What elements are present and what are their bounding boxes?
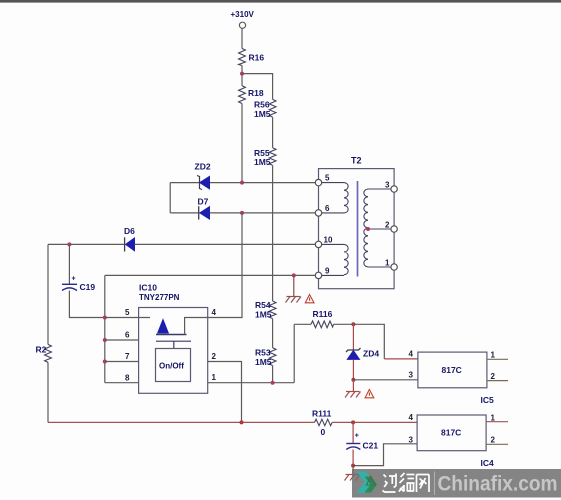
zener ZD4 [346, 324, 379, 380]
wire D7 node to T2 pin6 [242, 212, 315, 214]
wire IC10 pin1 line to R53/R116 branch [208, 382, 295, 384]
svg-text:3: 3 [409, 371, 414, 380]
warning triangle 3 (over banner) [366, 476, 375, 485]
svg-text:R2: R2 [36, 345, 47, 355]
svg-text:Chinafix.com: Chinafix.com [438, 473, 558, 496]
resistor R55 1M5 [254, 148, 276, 167]
svg-text:C19: C19 [80, 282, 96, 292]
node C21 top junction [351, 420, 355, 424]
svg-text:6: 6 [325, 204, 330, 213]
svg-text:On/Off: On/Off [159, 362, 184, 371]
wire ZD2 node to T2 pin5 [242, 182, 315, 184]
block On/Off inside IC10 [156, 349, 191, 382]
svg-text:R116: R116 [313, 309, 333, 319]
svg-text:1M5: 1M5 [255, 309, 272, 319]
wire IC5 pin1 right [487, 358, 508, 360]
svg-text:1M5: 1M5 [255, 357, 272, 367]
wire R55 down to R54 (crosses pin5/pin6/pin10/pin9 lines) [272, 165, 274, 301]
wire IC5 pin3 line [353, 379, 418, 381]
top border bar [0, 0, 561, 3]
op-amp IC10 outline [139, 283, 208, 394]
svg-text:817C: 817C [442, 365, 462, 375]
pin 1 T2 [385, 259, 397, 271]
winding secondary 3-2-1 [364, 189, 391, 267]
resistor R116 [294, 309, 353, 328]
wire IC10 pin2 branch down to bottom line [208, 362, 242, 423]
svg-text:IC4: IC4 [481, 458, 495, 468]
svg-text:6: 6 [125, 331, 130, 340]
wire source bus vertical [104, 275, 106, 382]
svg-text:IC10: IC10 [139, 283, 157, 293]
watermark text xun wei wang (drawn glyphs) [383, 473, 430, 492]
svg-text:2: 2 [491, 436, 496, 445]
wire R116 branch vertical [293, 324, 295, 382]
winding primary 5-6 [322, 183, 348, 213]
warning triangle 2 [365, 390, 374, 398]
svg-text:3: 3 [409, 436, 414, 445]
resistor R53 1M5 [255, 348, 276, 367]
svg-text:D6: D6 [124, 226, 135, 236]
wire bottom line (red) right part to IC4 pin4 [332, 421, 417, 423]
svg-text:5: 5 [325, 174, 330, 183]
node secondary tap junction [366, 227, 370, 231]
wire +310V to R16 [241, 29, 243, 49]
svg-text:4: 4 [409, 413, 414, 422]
optocoupler IC4 817C [417, 415, 494, 468]
core T2 [357, 181, 359, 277]
wire clamp left vertical [169, 183, 171, 213]
ground hot ground 2 [345, 392, 361, 398]
capacitor C21 [346, 422, 378, 474]
watermark separator and Chinafix.com [435, 472, 558, 496]
node D7/drain junction [240, 211, 244, 215]
wire R18 to ZD2 node [241, 104, 243, 183]
svg-text:2: 2 [212, 352, 217, 361]
node IC4 pin3 ground junction [351, 464, 355, 468]
svg-text:R16: R16 [249, 53, 265, 63]
node bus/pin5 junction [103, 316, 107, 320]
watermark banner [352, 469, 561, 498]
resistor R54 1M5 [255, 300, 276, 319]
wire stub to hot ground 2 [352, 380, 354, 392]
svg-text:ZD4: ZD4 [363, 349, 379, 359]
svg-text:10: 10 [324, 236, 333, 245]
svg-text:ZD2: ZD2 [195, 162, 211, 172]
resistor R16 [239, 49, 265, 66]
svg-text:1: 1 [491, 351, 496, 360]
wire R54 to R53 [272, 319, 274, 348]
svg-text:R18: R18 [248, 88, 264, 98]
wire pin7 into IC10 [105, 361, 139, 363]
wire R16 to junction [241, 66, 243, 86]
wire branch to R56 [242, 74, 273, 100]
resistor R18 [239, 86, 264, 104]
node pin2-branch/bottom-line junction [240, 420, 244, 424]
wire stub to hot ground 1 [293, 275, 295, 296]
svg-text:1M5: 1M5 [254, 157, 271, 167]
pin 10 T2 [315, 236, 333, 248]
transformer T2 [319, 156, 395, 289]
wire pin8 into IC10 [105, 382, 139, 384]
warning triangle 1 [305, 295, 314, 303]
svg-text:817C: 817C [441, 428, 461, 438]
node +310V terminal [231, 10, 255, 28]
svg-text:+: + [355, 433, 359, 440]
resistor R56 1M5 [254, 99, 276, 118]
wire R56 to R55 [272, 117, 274, 148]
pin 9 T2 [315, 267, 330, 279]
svg-text:4: 4 [409, 350, 414, 359]
pin 2 T2 [385, 221, 397, 233]
svg-text:R111: R111 [312, 408, 332, 418]
svg-text:4: 4 [212, 308, 217, 317]
svg-text:1: 1 [385, 259, 390, 268]
node ZD4 top junction [351, 322, 355, 326]
pin 6 T2 [315, 204, 330, 216]
wire pin6 into IC10 [105, 339, 139, 341]
node junction R16/R18/R56 [240, 72, 244, 76]
wire IC4 pin2 right [486, 443, 508, 445]
wire pin5 into IC10 [105, 317, 150, 319]
svg-text:7: 7 [125, 352, 130, 361]
svg-text:C21: C21 [363, 441, 379, 451]
svg-text:T2: T2 [351, 156, 362, 166]
node pin9/ground junction [292, 273, 296, 277]
wire left vertical (D6 corner down to bottom line) [47, 244, 49, 344]
winding bias 10-9 [322, 244, 348, 275]
wire red into IC5 pin4 [384, 358, 418, 360]
wire IC4 pin3 to ground node [353, 444, 417, 466]
wire D6 line: T2 pin10 to left corner [48, 243, 315, 245]
node ZD4 bottom junction [351, 378, 355, 382]
transistor MOSFET inside IC10 [156, 318, 208, 349]
svg-text:3: 3 [385, 181, 390, 190]
pin 5 T2 [315, 174, 330, 186]
svg-text:2: 2 [491, 372, 496, 381]
svg-text:9: 9 [325, 267, 330, 276]
wire IC4 pin1 right (red) [486, 421, 508, 423]
svg-text:2: 2 [385, 221, 390, 230]
wire R116 line to IC5 pin4 corner [353, 324, 384, 359]
svg-text:8: 8 [125, 374, 130, 383]
resistor R111 0 [312, 408, 332, 437]
node bus/pin7 junction [103, 360, 107, 364]
svg-text:D7: D7 [198, 197, 209, 207]
ground hot ground 3 [345, 475, 361, 481]
wire bottom line (red) left part [48, 421, 315, 423]
optocoupler IC5 817C [418, 352, 494, 405]
node ZD2/drain junction [240, 181, 244, 185]
wire IC5 pin2 right [487, 380, 508, 382]
wire source line: T2 pin9 to left bus corner [105, 274, 315, 276]
capacitor C19 [62, 244, 105, 317]
svg-text:0: 0 [321, 427, 326, 437]
diode D6 [124, 226, 135, 252]
node C19 top junction [67, 242, 71, 246]
node R53/pin1 junction [271, 381, 275, 385]
diode D7 [170, 197, 242, 220]
svg-text:1: 1 [212, 373, 217, 382]
ground hot ground 1 [286, 297, 302, 303]
svg-text:TNY277PN: TNY277PN [139, 293, 180, 302]
svg-text:1M5: 1M5 [254, 109, 271, 119]
svg-text:5: 5 [125, 308, 130, 317]
svg-text:+: + [72, 276, 76, 283]
svg-text:+310V: +310V [231, 10, 255, 19]
wire drain vertical to IC10 pin4 [208, 213, 242, 318]
pin 3 T2 [385, 181, 397, 193]
node bus/pin6 junction [103, 338, 107, 342]
resistor R2 [36, 344, 52, 362]
wire R53 to pin1 line [272, 366, 274, 383]
svg-text:IC5: IC5 [481, 395, 495, 405]
zener ZD2 [170, 162, 242, 190]
